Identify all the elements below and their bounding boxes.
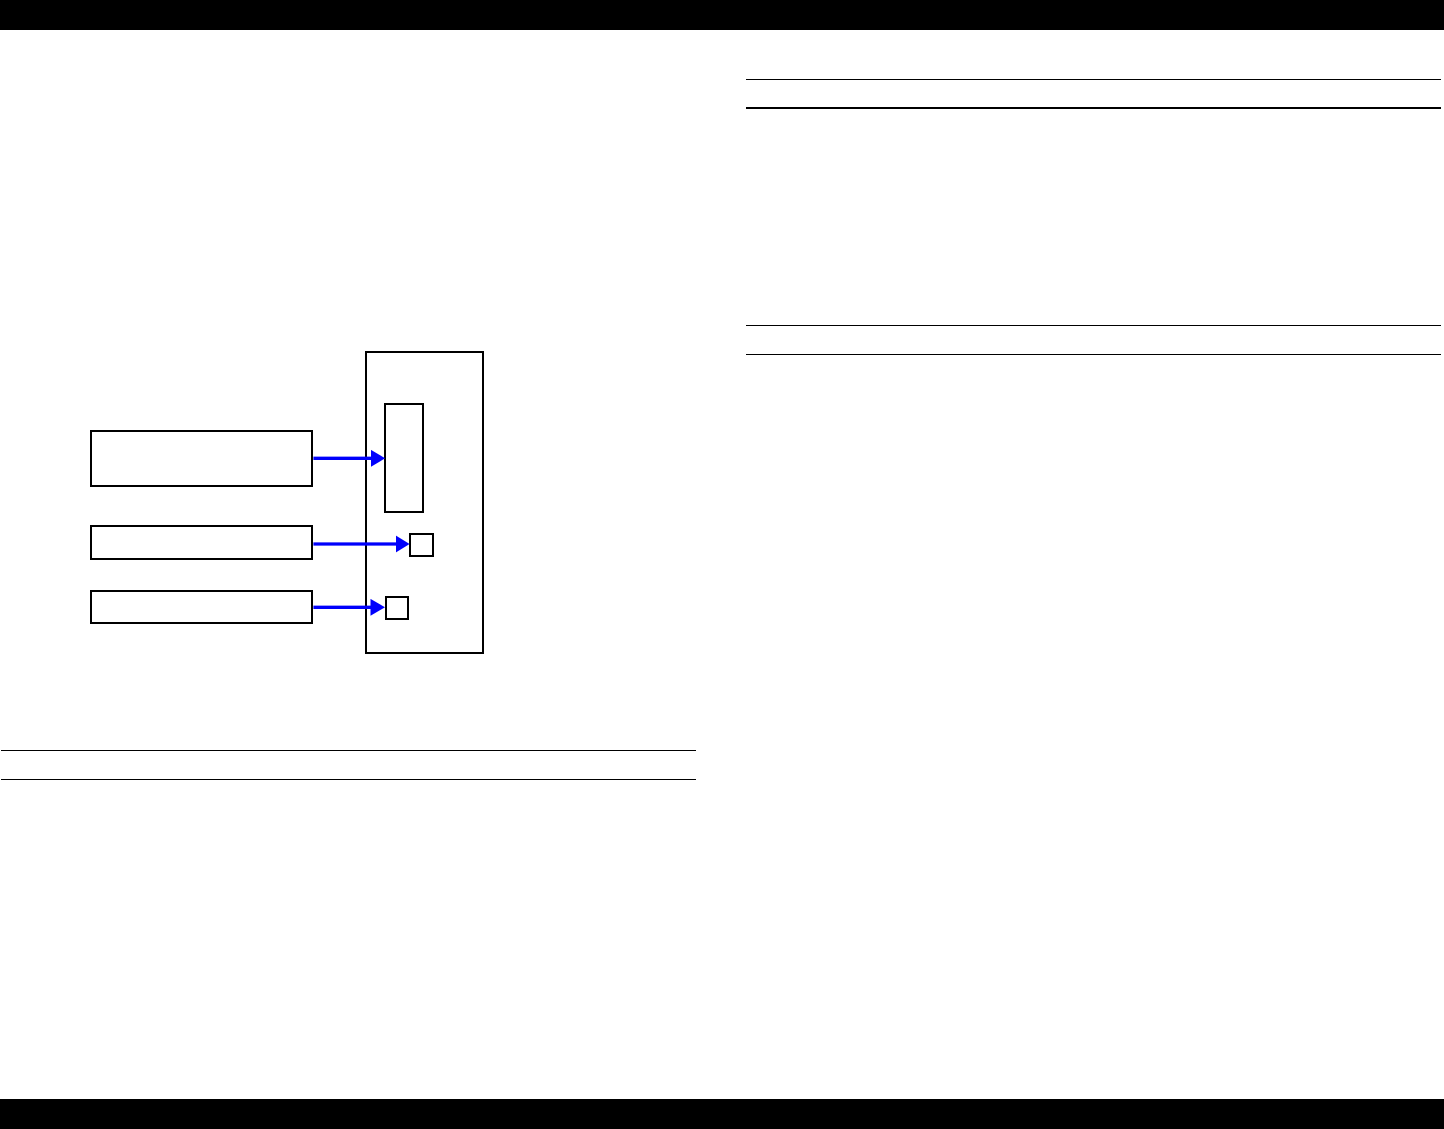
left column heading rule 1: [1, 750, 696, 751]
port square A: [409, 533, 434, 557]
label box 1: [90, 430, 314, 487]
label box 3: [90, 590, 314, 625]
arrow 3 (box 3 to port square B): [313, 599, 385, 616]
right column heading rule 2: [746, 107, 1441, 108]
right column heading rule 1: [746, 79, 1441, 80]
top black header bar: [0, 0, 1444, 30]
left column heading rule 2: [1, 779, 696, 780]
slot rectangle inside device: [384, 403, 423, 513]
right column heading rule 4: [746, 354, 1441, 355]
right column heading rule 3: [746, 325, 1441, 326]
device outline rectangle: [365, 351, 485, 654]
port square B: [385, 596, 409, 620]
arrow 2 (box 2 to port square A): [313, 536, 409, 553]
bottom black footer bar: [0, 1099, 1444, 1129]
label box 2: [90, 525, 314, 560]
arrow 1 (box 1 to slot): [313, 450, 385, 467]
